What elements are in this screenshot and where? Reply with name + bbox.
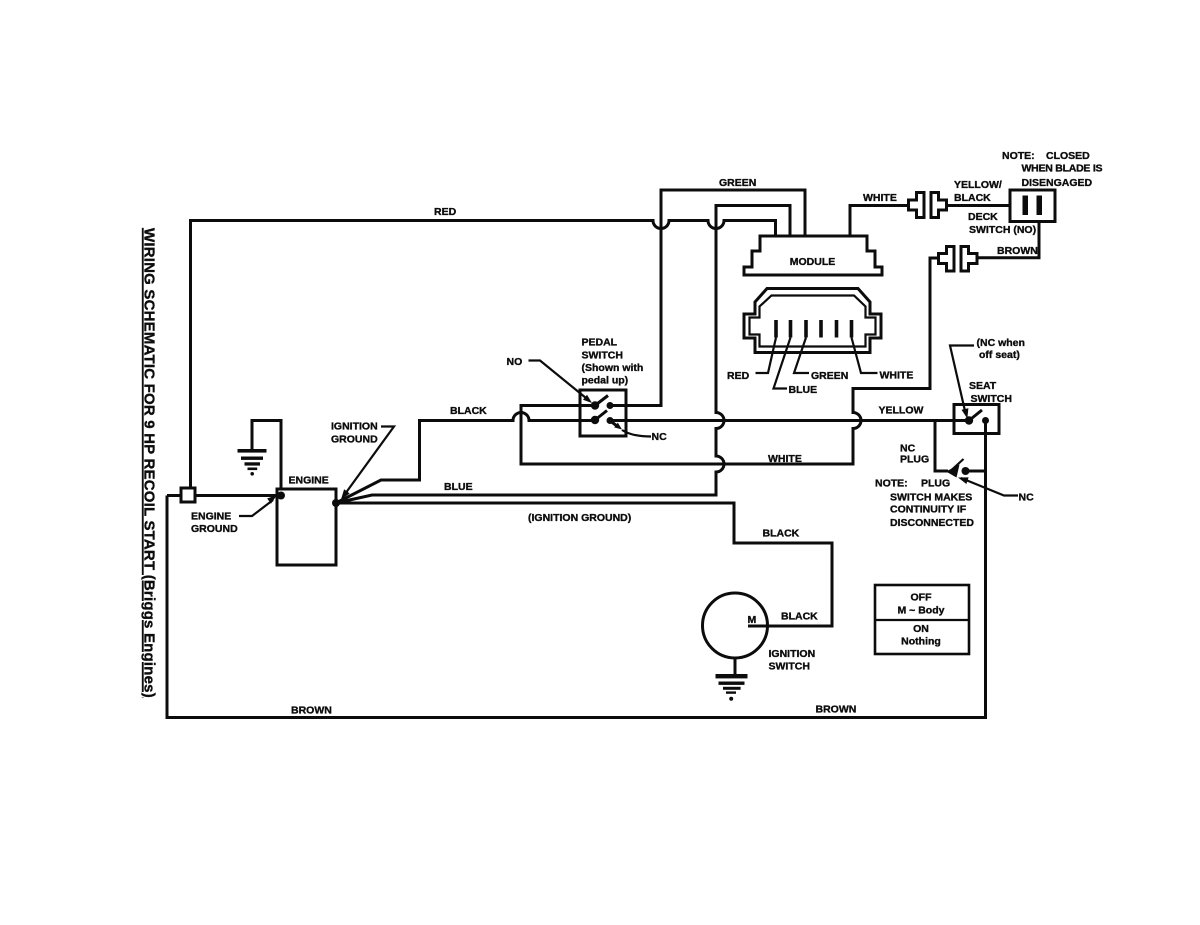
svg-text:SEAT: SEAT xyxy=(969,380,997,392)
svg-text:YELLOW: YELLOW xyxy=(879,405,924,417)
svg-text:CLOSED: CLOSED xyxy=(1046,150,1090,162)
svg-text:BLACK: BLACK xyxy=(954,192,991,204)
svg-text:M: M xyxy=(748,614,757,626)
svg-text:BROWN: BROWN xyxy=(997,245,1038,257)
svg-text:RED: RED xyxy=(434,206,457,218)
svg-text:RED: RED xyxy=(727,370,750,382)
svg-text:CONTINUITY IF: CONTINUITY IF xyxy=(890,504,967,516)
svg-text:DISENGAGED: DISENGAGED xyxy=(1022,177,1093,189)
svg-text:MODULE: MODULE xyxy=(790,256,836,268)
svg-text:SWITCH: SWITCH xyxy=(582,350,623,362)
svg-text:PLUG: PLUG xyxy=(900,454,929,466)
svg-text:WHITE: WHITE xyxy=(863,192,897,204)
svg-text:GREEN: GREEN xyxy=(719,177,756,189)
svg-text:M ~ Body: M ~ Body xyxy=(898,605,945,617)
svg-text:BLACK: BLACK xyxy=(781,611,818,623)
svg-text:WHITE: WHITE xyxy=(768,453,802,465)
svg-text:BROWN: BROWN xyxy=(291,705,332,717)
svg-text:NO: NO xyxy=(507,356,523,368)
svg-text:IGNITION: IGNITION xyxy=(769,648,816,660)
svg-text:off seat): off seat) xyxy=(979,349,1020,361)
svg-text:BLUE: BLUE xyxy=(444,481,473,493)
svg-text:BLACK: BLACK xyxy=(450,405,487,417)
svg-text:BLACK: BLACK xyxy=(763,528,800,540)
svg-text:ENGINE: ENGINE xyxy=(191,511,231,523)
svg-text:GREEN: GREEN xyxy=(811,370,848,382)
svg-text:GROUND: GROUND xyxy=(191,523,238,535)
svg-text:SWITCH MAKES: SWITCH MAKES xyxy=(890,492,972,504)
svg-text:PLUG: PLUG xyxy=(921,478,950,490)
svg-text:DISCONNECTED: DISCONNECTED xyxy=(890,517,974,529)
svg-text:BLUE: BLUE xyxy=(789,384,818,396)
svg-text:WIRING SCHEMATIC FOR 9 HP RECO: WIRING SCHEMATIC FOR 9 HP RECOIL START (… xyxy=(141,228,158,698)
svg-text:BROWN: BROWN xyxy=(816,704,857,716)
svg-text:(NC when: (NC when xyxy=(977,337,1025,349)
svg-text:(IGNITION GROUND): (IGNITION GROUND) xyxy=(528,512,631,524)
svg-text:PEDAL: PEDAL xyxy=(582,337,618,349)
svg-text:GROUND: GROUND xyxy=(331,434,378,446)
svg-text:IGNITION: IGNITION xyxy=(331,421,378,433)
svg-text:SWITCH: SWITCH xyxy=(769,661,810,673)
svg-text:ON: ON xyxy=(913,623,929,635)
svg-text:pedal up): pedal up) xyxy=(582,375,629,387)
svg-text:SWITCH (NO): SWITCH (NO) xyxy=(969,224,1036,236)
svg-text:ENGINE: ENGINE xyxy=(289,475,329,487)
svg-text:WHEN BLADE IS: WHEN BLADE IS xyxy=(1022,163,1103,175)
svg-text:NOTE:: NOTE: xyxy=(875,478,908,490)
svg-text:NC: NC xyxy=(1019,492,1035,504)
svg-text:YELLOW/: YELLOW/ xyxy=(954,179,1002,191)
svg-text:OFF: OFF xyxy=(911,592,933,604)
svg-text:SWITCH: SWITCH xyxy=(971,393,1012,405)
svg-text:(Shown with: (Shown with xyxy=(582,362,644,374)
svg-text:Nothing: Nothing xyxy=(901,636,941,648)
svg-text:NC: NC xyxy=(652,431,668,443)
svg-text:DECK: DECK xyxy=(968,211,998,223)
svg-text:WHITE: WHITE xyxy=(880,370,914,382)
svg-text:NOTE:: NOTE: xyxy=(1002,150,1035,162)
